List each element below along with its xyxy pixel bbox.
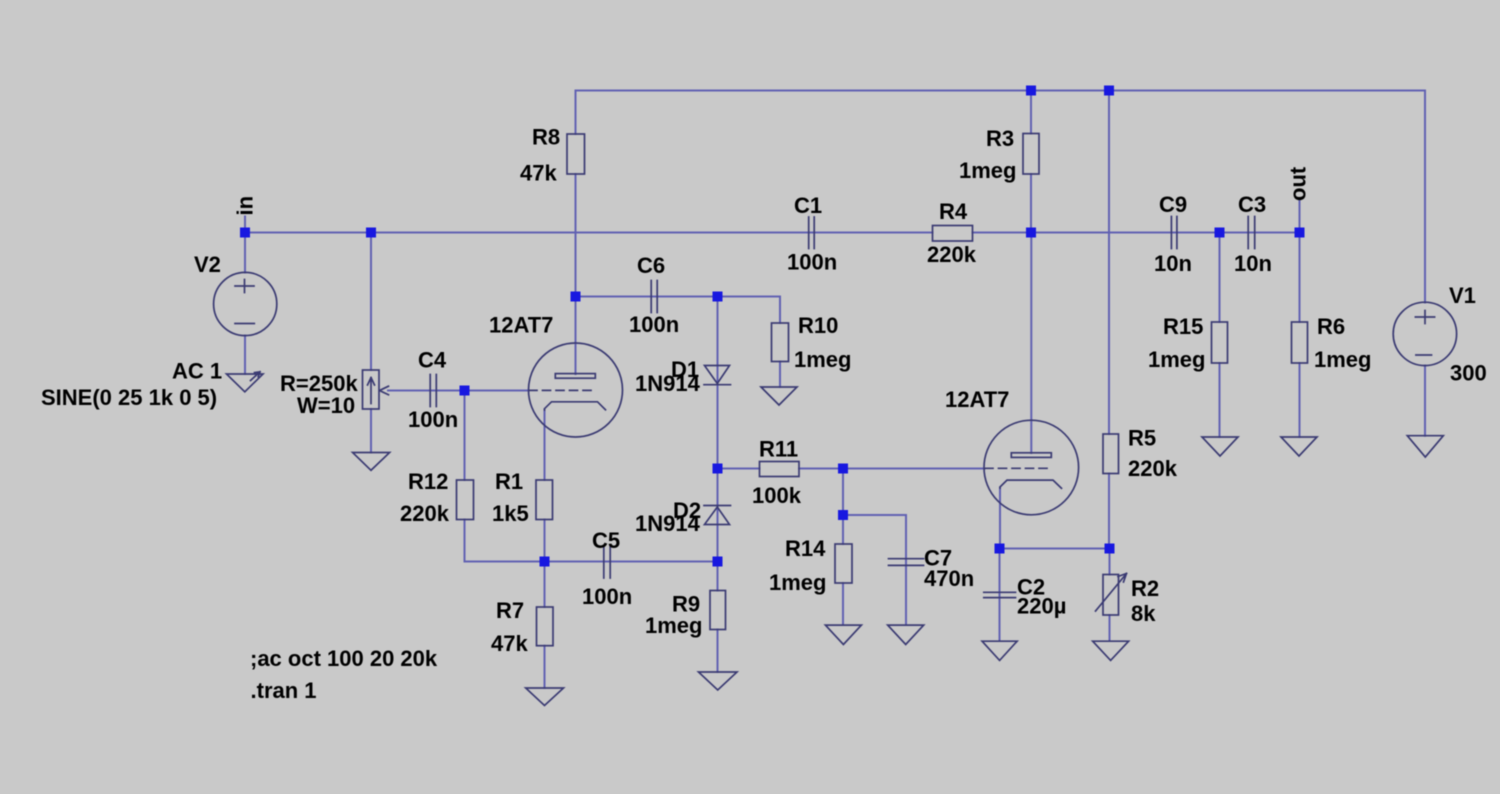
svg-text:R3: R3 [986, 126, 1014, 151]
svg-text:47k: 47k [520, 161, 557, 186]
svg-text:C5: C5 [592, 528, 620, 553]
svg-text:100n: 100n [787, 250, 837, 275]
svg-text:220k: 220k [927, 242, 977, 267]
svg-text:R8: R8 [532, 125, 560, 150]
svg-text:1meg: 1meg [959, 158, 1016, 183]
svg-text:1N914: 1N914 [635, 511, 701, 536]
svg-text:C4: C4 [418, 348, 447, 373]
svg-text:AC 1: AC 1 [172, 359, 222, 384]
svg-text:1k5: 1k5 [492, 501, 529, 526]
svg-text:1meg: 1meg [645, 613, 702, 638]
svg-text:;ac oct 100 20 20k: ;ac oct 100 20 20k [250, 646, 438, 671]
svg-text:C6: C6 [637, 253, 665, 278]
svg-text:W=10: W=10 [297, 393, 355, 418]
svg-text:220k: 220k [400, 501, 450, 526]
svg-text:R5: R5 [1128, 426, 1156, 451]
svg-text:1meg: 1meg [794, 347, 851, 372]
svg-text:R14: R14 [785, 536, 826, 561]
svg-text:8k: 8k [1131, 601, 1156, 626]
svg-text:R12: R12 [408, 469, 448, 494]
svg-text:100n: 100n [582, 584, 632, 609]
svg-text:300: 300 [1450, 361, 1487, 386]
svg-text:1meg: 1meg [769, 570, 826, 595]
svg-text:100k: 100k [752, 483, 802, 508]
svg-text:.tran 1: .tran 1 [251, 678, 317, 703]
svg-text:SINE(0 25 1k 0 5): SINE(0 25 1k 0 5) [41, 385, 217, 410]
svg-text:220µ: 220µ [1017, 594, 1066, 619]
svg-text:R1: R1 [495, 469, 523, 494]
svg-text:1N914: 1N914 [635, 371, 701, 396]
svg-text:R10: R10 [798, 313, 838, 338]
svg-text:R6: R6 [1317, 314, 1345, 339]
svg-text:V1: V1 [1449, 283, 1476, 308]
svg-text:R2: R2 [1131, 576, 1159, 601]
svg-text:R15: R15 [1163, 314, 1203, 339]
svg-text:100n: 100n [408, 407, 458, 432]
svg-text:47k: 47k [491, 631, 528, 656]
svg-text:12AT7: 12AT7 [489, 313, 553, 338]
svg-text:1meg: 1meg [1148, 347, 1205, 372]
svg-text:C1: C1 [794, 193, 822, 218]
svg-text:470n: 470n [924, 566, 974, 591]
svg-text:C3: C3 [1238, 192, 1266, 217]
svg-text:220k: 220k [1128, 456, 1178, 481]
svg-text:V2: V2 [194, 252, 221, 277]
svg-text:C9: C9 [1159, 192, 1187, 217]
svg-text:1meg: 1meg [1314, 347, 1371, 372]
svg-text:R7: R7 [496, 598, 524, 623]
svg-text:12AT7: 12AT7 [945, 387, 1009, 412]
svg-text:10n: 10n [1234, 251, 1272, 276]
svg-text:100n: 100n [629, 312, 679, 337]
svg-text:in: in [233, 196, 258, 216]
svg-text:out: out [1286, 166, 1311, 201]
svg-text:R11: R11 [759, 437, 798, 462]
svg-text:10n: 10n [1154, 251, 1192, 276]
svg-text:R4: R4 [939, 199, 968, 224]
